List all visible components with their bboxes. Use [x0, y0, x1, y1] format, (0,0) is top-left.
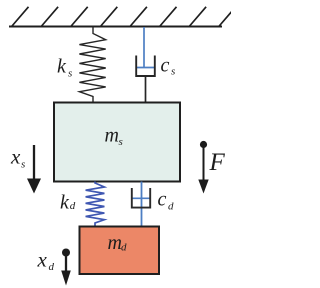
svg-text:s: s — [21, 159, 25, 171]
svg-text:k: k — [60, 192, 70, 214]
svg-text:c: c — [161, 55, 170, 77]
svg-text:d: d — [168, 201, 174, 213]
svg-text:k: k — [57, 56, 67, 78]
svg-text:F: F — [209, 149, 226, 176]
svg-text:x: x — [10, 145, 21, 169]
svg-text:s: s — [171, 66, 175, 78]
svg-text:s: s — [119, 136, 123, 148]
svg-text:d: d — [49, 261, 55, 273]
svg-text:m: m — [105, 125, 119, 147]
svg-text:x: x — [37, 248, 48, 272]
svg-text:s: s — [68, 68, 72, 80]
svg-text:c: c — [158, 189, 167, 211]
svg-text:m: m — [108, 232, 122, 254]
svg-text:d: d — [121, 242, 127, 254]
svg-text:d: d — [70, 200, 76, 212]
